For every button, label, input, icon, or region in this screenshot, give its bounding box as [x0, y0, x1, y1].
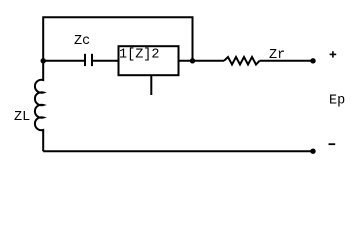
- node + terminal: [310, 58, 315, 63]
- label -: [329, 143, 336, 145]
- node junction left: [41, 58, 46, 63]
- wire box to node: [179, 60, 224, 62]
- wire bottom rail: [43, 150, 313, 152]
- inductor ZL: [35, 61, 43, 151]
- svg-text:ZL: ZL: [14, 110, 30, 125]
- svg-text:1[Z]2: 1[Z]2: [119, 47, 160, 62]
- node junction right: [190, 58, 195, 63]
- wire box stub: [150, 76, 152, 95]
- label +: [330, 51, 337, 57]
- two-port box U1: [119, 46, 179, 75]
- wire capacitor to box: [93, 60, 118, 62]
- svg-text:Zc: Zc: [74, 34, 90, 49]
- node - terminal: [310, 149, 315, 154]
- resistor Zr: [224, 57, 260, 65]
- wire resistor to + terminal: [260, 60, 314, 62]
- wire top rail: [43, 17, 192, 61]
- wire left branch to capacitor: [43, 60, 84, 62]
- svg-text:Ep: Ep: [329, 93, 345, 108]
- capacitor Zc: [85, 54, 92, 66]
